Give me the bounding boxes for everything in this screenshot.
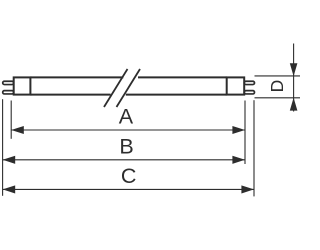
tube bottom line right segment	[126, 94, 227, 96]
left cap	[14, 77, 31, 94]
C arrow right	[241, 185, 254, 193]
extension line right pins tip	[253, 100, 255, 196]
B arrow left	[3, 156, 16, 164]
D bottom extension line	[255, 97, 301, 99]
D arrow down	[290, 63, 298, 76]
svg-text:B: B	[119, 135, 133, 159]
D arrow up	[290, 98, 298, 111]
dimension line C	[3, 188, 254, 190]
right pin top	[244, 81, 254, 84]
break slash 2	[117, 69, 141, 107]
right cap	[227, 77, 245, 94]
A arrow right	[232, 126, 245, 134]
A arrow left	[11, 126, 24, 134]
tube top line left segment	[30, 76, 123, 78]
C arrow left	[3, 185, 16, 193]
svg-text:C: C	[121, 164, 137, 188]
left pin bottom	[3, 91, 14, 94]
tube top line right segment	[138, 76, 227, 78]
dimension line B	[3, 159, 245, 161]
svg-text:A: A	[119, 105, 134, 129]
extension line left pins tip	[2, 99, 4, 196]
right pin bottom	[244, 91, 254, 94]
extension line right cap face	[244, 101, 246, 165]
dimension line A	[11, 129, 245, 131]
D top extension line	[255, 75, 301, 77]
tube bottom line left segment	[30, 94, 110, 96]
left pin top	[3, 81, 14, 84]
break slash 1	[104, 69, 128, 107]
extension line left cap face	[10, 101, 12, 139]
B arrow right	[232, 156, 245, 164]
svg-text:D: D	[267, 80, 287, 93]
D dimension vertical line	[293, 44, 295, 112]
